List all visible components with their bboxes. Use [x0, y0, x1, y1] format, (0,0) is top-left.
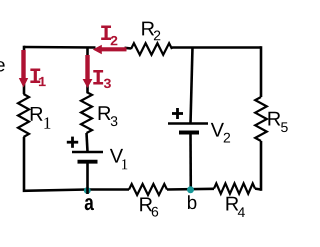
current arrow I1: [21, 50, 25, 79]
wire top horizontal from R2 to right rail: [172, 46, 261, 49]
current arrow I3: [85, 55, 89, 80]
label R2: [142, 22, 154, 36]
wire right rail upper: [260, 46, 263, 97]
label R3: [99, 106, 111, 120]
wire branch V2 from top wire: [191, 47, 193, 124]
node b label: [188, 195, 196, 209]
battery V1 plus sign: [67, 141, 78, 144]
stray letter e at left edge: [0, 61, 5, 71]
battery V2 plus sign: [172, 112, 183, 115]
wire V2 to node b: [189, 133, 192, 192]
wire bottom R4 to right corner: [255, 187, 261, 190]
wire R3 to V1 top plate: [87, 133, 88, 152]
label V2: [211, 123, 224, 137]
wire top horizontal from I2 arrow tail to R2: [125, 46, 132, 49]
battery V2 short plate: [179, 131, 199, 135]
wire top horizontal from left rail to I2 arrow tip: [24, 46, 96, 49]
resistor R6: [129, 184, 167, 195]
label R4: [226, 197, 238, 211]
current arrow I2: [99, 47, 127, 51]
battery V1 long plate: [72, 151, 103, 154]
label V1: [110, 149, 123, 163]
resistor R2: [131, 43, 172, 55]
battery V2 long plate: [168, 122, 208, 125]
wire bottom from node a to R6: [85, 188, 129, 191]
battery V1 short plate: [78, 160, 98, 164]
label I3: [93, 70, 103, 85]
label R6: [140, 198, 152, 212]
wire left rail vertical lower + bottom to node a: [24, 137, 87, 191]
label R1: [31, 107, 43, 121]
resistor R5: [255, 97, 267, 141]
label R5: [268, 112, 280, 126]
resistor R1: [18, 94, 29, 137]
wire bottom from R6 to R4: [167, 188, 214, 191]
label I2: [101, 26, 111, 41]
node a dot: [84, 187, 91, 194]
wire branch R3 from top junction: [86, 47, 89, 92]
node a label: [85, 198, 94, 210]
wire left rail vertical upper: [23, 46, 26, 94]
label I1: [30, 69, 40, 84]
wire V1 to node a: [86, 162, 89, 195]
wire right rail lower: [260, 141, 263, 191]
node b dot: [187, 186, 194, 193]
resistor R4: [214, 183, 255, 193]
resistor R3: [81, 92, 92, 133]
